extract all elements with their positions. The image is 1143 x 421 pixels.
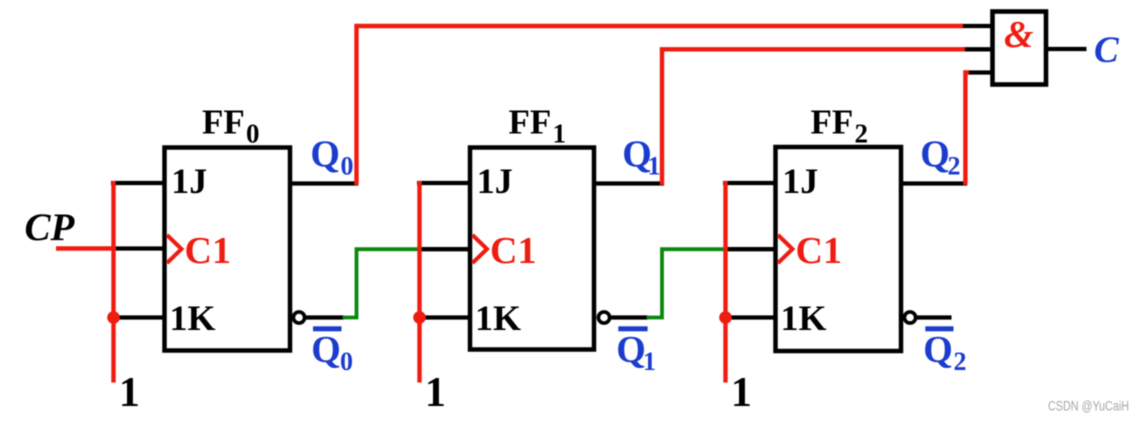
svg-text:FF: FF [811, 103, 854, 142]
svg-text:0: 0 [340, 347, 353, 376]
svg-text:Q: Q [311, 329, 341, 371]
svg-text:0: 0 [341, 152, 354, 181]
svg-text:2: 2 [954, 347, 967, 376]
svg-text:Q: Q [616, 329, 646, 371]
svg-text:&: & [1004, 14, 1034, 56]
svg-text:Q: Q [310, 134, 340, 176]
svg-text:Q: Q [920, 134, 950, 176]
svg-text:C1: C1 [185, 230, 231, 272]
svg-text:1: 1 [119, 370, 140, 416]
svg-text:1: 1 [648, 152, 661, 181]
svg-text:1: 1 [553, 119, 567, 149]
svg-text:1: 1 [425, 370, 446, 416]
svg-text:FF: FF [202, 103, 245, 142]
svg-text:0: 0 [246, 119, 260, 149]
svg-text:1K: 1K [475, 298, 521, 338]
svg-text:2: 2 [948, 152, 961, 181]
svg-text:Q: Q [923, 329, 953, 371]
svg-text:1: 1 [643, 347, 656, 376]
svg-text:CP: CP [25, 206, 76, 249]
svg-text:1: 1 [731, 370, 752, 416]
svg-text:CSDN @YuCaiH: CSDN @YuCaiH [1048, 399, 1129, 414]
svg-text:2: 2 [855, 119, 869, 149]
svg-text:1K: 1K [781, 298, 827, 338]
svg-text:1J: 1J [477, 161, 513, 201]
svg-text:1J: 1J [171, 161, 207, 201]
svg-text:C1: C1 [796, 230, 842, 272]
svg-text:FF: FF [509, 103, 552, 142]
svg-text:C1: C1 [490, 230, 536, 272]
svg-text:1J: 1J [782, 161, 818, 201]
svg-text:1K: 1K [170, 298, 216, 338]
svg-text:C: C [1094, 30, 1120, 71]
